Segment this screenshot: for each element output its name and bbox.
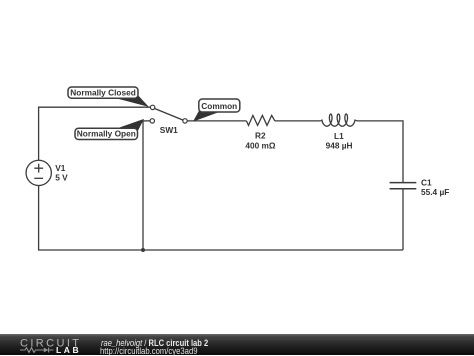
Normally Closed pointer wedge (112, 96, 149, 107)
callout Normally Open (75, 119, 144, 140)
svg-text:SW1: SW1 (160, 125, 178, 135)
bottom bar (0, 334, 474, 355)
V1 minus sign (34, 177, 43, 179)
wire R2 to L1 (275, 120, 321, 122)
svg-text:Normally Closed: Normally Closed (70, 87, 135, 97)
callout Common (193, 99, 240, 122)
svg-text:Normally Open: Normally Open (77, 129, 136, 139)
resistor R2 (245, 115, 276, 150)
svg-text:L1: L1 (334, 131, 344, 141)
L1 coil body (321, 114, 357, 126)
NO terminal circle (150, 119, 154, 123)
svg-text:55.4 µF: 55.4 µF (421, 187, 449, 197)
wire NO stub (143, 120, 150, 122)
switch lever (155, 109, 184, 121)
url text (100, 347, 198, 356)
C1 plates (390, 183, 417, 189)
logo resistor zigzag and diode wire (20, 348, 54, 353)
wire NO vertical (142, 121, 144, 250)
callout Normally Closed (68, 87, 149, 107)
R2 zigzag body (246, 115, 275, 125)
CircuitLab logo (0, 334, 95, 355)
wire left rail top segment (39, 107, 151, 160)
wire common to R2 (187, 120, 246, 122)
svg-text:Common: Common (201, 101, 237, 111)
NC terminal circle (150, 105, 154, 109)
V1 body circle (26, 160, 51, 185)
Normally Open pointer wedge (113, 119, 144, 131)
common terminal circle (183, 119, 187, 123)
svg-text:948 µH: 948 µH (326, 141, 353, 151)
capacitor C1 (390, 178, 450, 198)
svg-text:V1: V1 (55, 163, 66, 173)
svg-text:C1: C1 (421, 178, 432, 188)
wire right rail bottom (402, 189, 404, 250)
wire junction at NO branch and bottom rail (141, 248, 145, 252)
switch SW1 (150, 105, 187, 135)
wire L1 to top right corner (357, 121, 403, 183)
wire left rail bottom segment (39, 186, 143, 251)
svg-text:LAB: LAB (56, 345, 81, 355)
inductor L1 (321, 114, 357, 151)
Common pointer wedge (193, 110, 219, 121)
svg-text:400 mΩ: 400 mΩ (245, 141, 276, 151)
svg-text:R2: R2 (255, 131, 266, 141)
Normally Closed box (68, 87, 138, 98)
logo diode triangle (44, 348, 49, 353)
voltage source V1 (26, 160, 68, 185)
V1 plus sign (34, 164, 43, 173)
Normally Open box (75, 128, 138, 139)
wire bottom segment junction to right (143, 249, 403, 251)
title text (101, 339, 208, 348)
svg-text:5 V: 5 V (55, 173, 68, 183)
Common box (199, 99, 240, 112)
